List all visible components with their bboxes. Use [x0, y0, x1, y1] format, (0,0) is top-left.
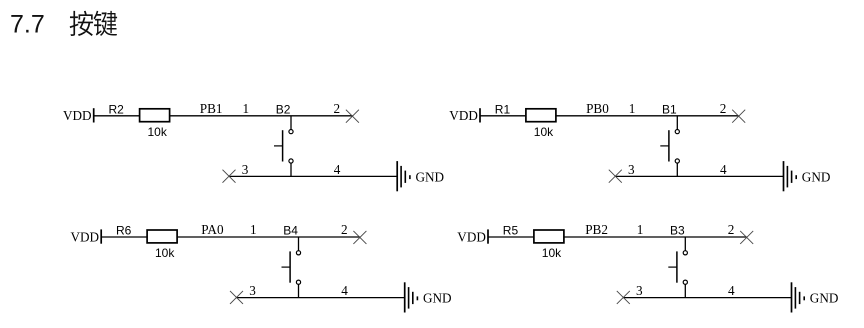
bottom wire pin 3 to GND (B3 circuit) [623, 297, 791, 299]
no-connect X on pin 2 of B3 [740, 231, 753, 244]
title character 按 [70, 11, 93, 36]
svg-text:2: 2 [728, 222, 735, 237]
svg-text:1: 1 [250, 222, 257, 237]
svg-text:B3: B3 [670, 224, 685, 238]
wire pin 1 down to button B4 top terminal [298, 237, 300, 251]
svg-text:VDD: VDD [449, 108, 478, 123]
wire VDD to resistor R6 [101, 236, 146, 238]
ground symbol (B3 circuit) [792, 282, 805, 312]
power port VDD (R1 circuit) [449, 108, 480, 123]
power port VDD (R6 circuit) [71, 229, 102, 244]
svg-text:3: 3 [249, 283, 256, 298]
wire resistor R1 to pin 2 no-connect [557, 115, 739, 117]
ground symbol (B2 circuit) [397, 161, 410, 191]
title character 键 [94, 11, 118, 36]
wire VDD to resistor R2 [94, 115, 139, 117]
wire resistor R6 to pin 2 no-connect [178, 236, 360, 238]
wire button B3 bottom terminal to bottom net [684, 284, 686, 297]
resistor R5 body [534, 230, 564, 243]
no-connect X on pin 3 of B4 [230, 291, 243, 304]
svg-text:PB1: PB1 [200, 101, 223, 116]
svg-text:B4: B4 [283, 224, 298, 238]
no-connect X on pin 3 of B2 [223, 170, 236, 183]
power port VDD (R2 circuit) [63, 108, 94, 123]
svg-text:2: 2 [334, 101, 341, 116]
wire pin 1 down to button B3 top terminal [684, 237, 686, 251]
power port VDD (R5 circuit) [457, 229, 488, 244]
resistor R2 body [140, 109, 170, 122]
svg-text:GND: GND [416, 169, 445, 184]
wire button B2 bottom terminal to bottom net [290, 163, 292, 176]
button B3 actuator side tick [668, 266, 677, 268]
svg-text:PB0: PB0 [586, 101, 609, 116]
wire resistor R2 to pin 2 no-connect [170, 115, 352, 117]
wire pin 1 down to button B1 top terminal [676, 116, 678, 130]
svg-text:10k: 10k [542, 246, 562, 260]
svg-text:B1: B1 [662, 102, 677, 116]
button B2 bottom terminal circle [289, 159, 293, 163]
no-connect X on pin 3 of B1 [609, 170, 622, 183]
no-connect X on pin 2 of B4 [353, 231, 366, 244]
button B4 bottom terminal circle [296, 280, 300, 284]
svg-text:10k: 10k [155, 246, 175, 260]
svg-text:R5: R5 [503, 224, 519, 238]
button B1 actuator bar [668, 130, 670, 161]
button B1 actuator side tick [660, 145, 669, 147]
wire resistor R5 to pin 2 no-connect [565, 236, 747, 238]
svg-text:4: 4 [720, 162, 727, 177]
svg-text:4: 4 [728, 283, 735, 298]
svg-text:PB2: PB2 [585, 222, 608, 237]
svg-text:3: 3 [242, 162, 249, 177]
button B3 bottom terminal circle [683, 280, 687, 284]
button B1 top terminal circle [675, 130, 679, 134]
svg-text:VDD: VDD [63, 108, 92, 123]
svg-text:GND: GND [423, 291, 452, 306]
button B1 bottom terminal circle [675, 159, 679, 163]
button B2 actuator side tick [274, 145, 283, 147]
button B4 actuator side tick [282, 266, 291, 268]
svg-text:3: 3 [628, 162, 635, 177]
svg-text:VDD: VDD [457, 229, 486, 244]
no-connect X on pin 2 of B1 [732, 110, 745, 123]
button B2 top terminal circle [289, 130, 293, 134]
resistor R1 body [526, 109, 556, 122]
button B4 actuator bar [289, 251, 291, 282]
svg-text:10k: 10k [148, 125, 168, 139]
svg-text:3: 3 [636, 283, 643, 298]
wire pin 1 down to button B2 top terminal [290, 116, 292, 130]
svg-text:2: 2 [341, 222, 348, 237]
no-connect X on pin 3 of B3 [617, 291, 630, 304]
svg-text:7.7: 7.7 [10, 10, 45, 38]
svg-text:B2: B2 [276, 102, 291, 116]
wire VDD to resistor R1 [480, 115, 525, 117]
svg-text:R1: R1 [495, 103, 511, 117]
button B3 top terminal circle [683, 251, 687, 255]
button B2 actuator bar [282, 130, 284, 161]
svg-text:4: 4 [341, 283, 348, 298]
svg-text:R2: R2 [109, 103, 125, 117]
wire button B4 bottom terminal to bottom net [298, 284, 300, 297]
bottom wire pin 3 to GND (B4 circuit) [237, 297, 405, 299]
svg-text:1: 1 [243, 101, 250, 116]
svg-text:GND: GND [802, 169, 831, 184]
svg-text:GND: GND [810, 291, 839, 306]
ground symbol (B1 circuit) [784, 161, 797, 191]
svg-text:PA0: PA0 [201, 222, 224, 237]
svg-text:2: 2 [720, 101, 727, 116]
wire button B1 bottom terminal to bottom net [676, 163, 678, 176]
svg-text:R6: R6 [116, 224, 132, 238]
svg-text:10k: 10k [534, 125, 554, 139]
bottom wire pin 3 to GND (B1 circuit) [615, 175, 783, 177]
bottom wire pin 3 to GND (B2 circuit) [229, 175, 397, 177]
no-connect X on pin 2 of B2 [346, 110, 359, 123]
button B3 actuator bar [676, 251, 678, 282]
svg-text:1: 1 [629, 101, 636, 116]
resistor R6 body [147, 230, 177, 243]
ground symbol (B4 circuit) [405, 282, 418, 312]
svg-text:VDD: VDD [71, 229, 100, 244]
svg-text:4: 4 [334, 162, 341, 177]
wire VDD to resistor R5 [488, 236, 533, 238]
button B4 top terminal circle [296, 251, 300, 255]
svg-text:1: 1 [637, 222, 644, 237]
